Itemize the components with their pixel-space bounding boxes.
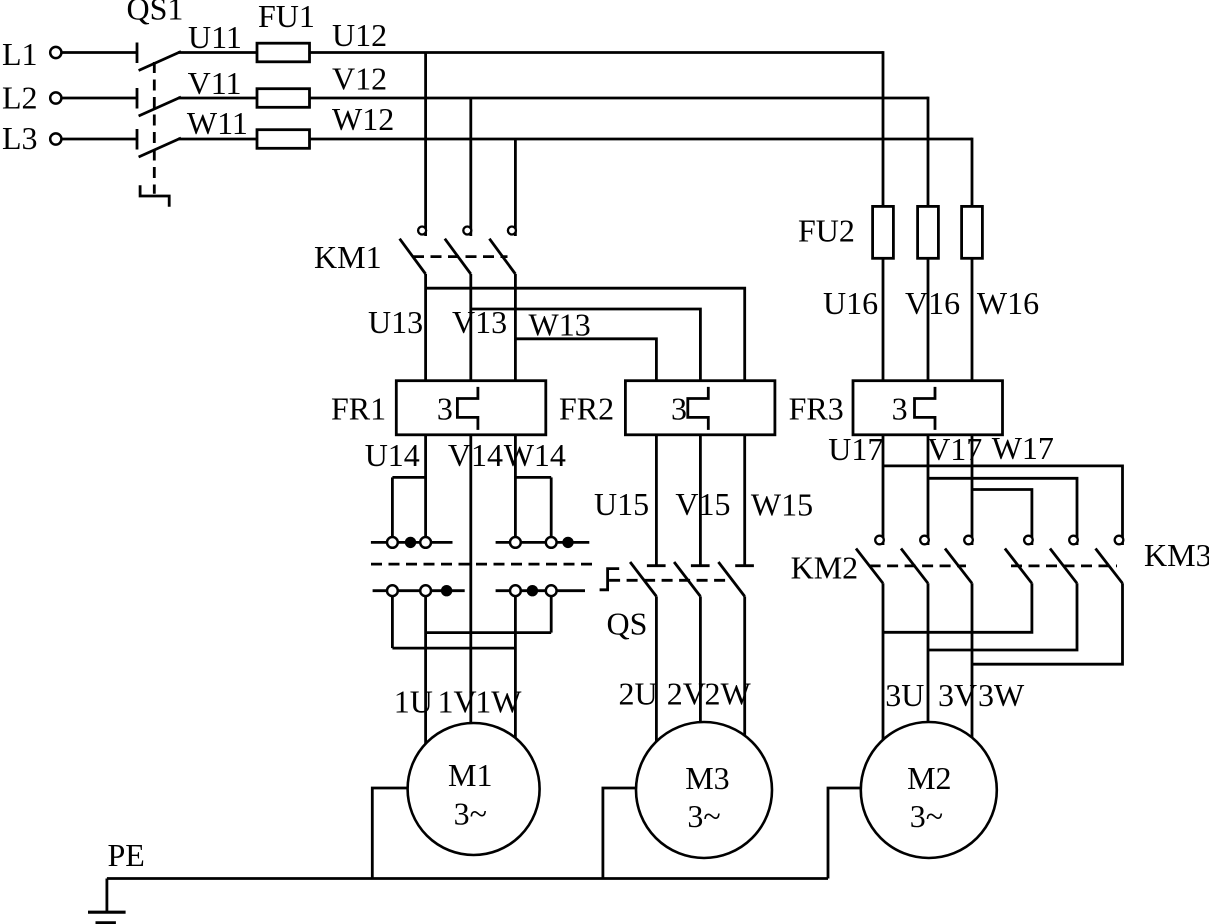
overload relay FR1 box — [396, 381, 546, 435]
fuse FU1 pole 1 — [257, 43, 310, 62]
svg-text:3: 3 — [437, 391, 453, 427]
KM2 pole 1 fixed contact circle — [875, 536, 884, 545]
wire W13 vertical — [514, 274, 517, 381]
KM3 pole 1 blade — [1005, 549, 1032, 584]
svg-text:U17: U17 — [828, 431, 883, 467]
wire M1 earth stub — [372, 788, 407, 879]
drum switch row1 contact E — [546, 537, 557, 548]
wire U12 drop to FU2 — [882, 51, 885, 206]
wire KM3 pole1 return — [883, 583, 1032, 632]
wire KM3 pole3 return — [972, 583, 1123, 664]
wire bus drop to KM1 pole 3 — [514, 139, 517, 236]
wire PE to ground — [106, 879, 109, 912]
KM1 blade pole 1 — [400, 239, 426, 274]
wire U11 — [178, 51, 257, 54]
svg-text:KM3: KM3 — [1144, 537, 1209, 573]
QS1 blade pole 1 — [139, 52, 181, 71]
FR3 heater element symbol — [915, 387, 936, 430]
svg-text:L2: L2 — [2, 80, 38, 116]
drum switch row2 bridge dot right — [527, 585, 538, 596]
fuse FU1 pole 3 — [257, 130, 310, 149]
QS1 linkage dashed line — [153, 62, 156, 194]
overload relay FR2 box — [625, 381, 775, 435]
wire U14 jog to left column — [392, 476, 425, 479]
motor M1 circle — [408, 723, 540, 855]
wire 1W motor lead — [514, 596, 517, 738]
QS1 operating handle — [140, 185, 169, 207]
wire V17 branch to KM3 — [928, 478, 1077, 545]
svg-text:U12: U12 — [332, 17, 387, 53]
wire U13 vertical — [424, 274, 427, 381]
drum switch row2 right contact line — [496, 589, 585, 592]
wire U15 vertical — [655, 435, 658, 566]
wire KM3 pole2 return — [928, 583, 1077, 650]
wire left column drop — [391, 477, 394, 537]
wire V13 vertical — [469, 274, 472, 381]
svg-text:U14: U14 — [365, 437, 420, 473]
wire L3 to QS1 — [61, 138, 137, 141]
QS fixed contact tick pole 2 — [691, 564, 710, 567]
wire row2 A drop — [391, 596, 394, 648]
wire W12 drop to FU2 — [971, 138, 974, 207]
wire 3U motor lead — [882, 583, 885, 740]
wire L2 to QS1 — [61, 97, 137, 100]
wire W14 vertical — [514, 435, 517, 537]
wire PE bus — [107, 877, 828, 880]
wire right column drop — [550, 477, 553, 537]
fuse FU2 pole 3 — [962, 206, 983, 258]
wire row2 E to B crossover — [426, 631, 552, 634]
wire U14 vertical — [424, 435, 427, 537]
wire V12 bus — [310, 97, 929, 100]
wire W15 vertical — [743, 435, 746, 566]
drum switch row1 contact B — [420, 537, 431, 548]
wire V12 drop to FU2 — [927, 97, 930, 207]
svg-text:2W: 2W — [705, 676, 752, 712]
wire bus drop to KM1 pole 1 — [424, 53, 427, 237]
wire W14 jog to right column — [515, 476, 551, 479]
svg-text:W15: W15 — [751, 487, 813, 523]
wire V14 vertical (through to motor M1) — [469, 435, 472, 723]
FR1 heater element symbol — [457, 387, 478, 430]
KM1 fixed contact circle pole 2 — [463, 227, 471, 235]
drum switch row2 contact B — [420, 585, 431, 596]
svg-text:3: 3 — [892, 391, 908, 427]
svg-text:FR1: FR1 — [331, 391, 386, 427]
wire V17 vertical — [927, 435, 930, 545]
svg-text:FU2: FU2 — [798, 213, 855, 249]
svg-text:L3: L3 — [2, 120, 38, 156]
QS1 blade pole 2 — [139, 97, 181, 116]
drum switch row1 bridge dot — [405, 537, 416, 548]
ground bar 1 — [88, 911, 126, 914]
drum switch row1 contact A — [387, 537, 398, 548]
overload relay FR3 box — [853, 381, 1003, 435]
FR2 heater element symbol — [688, 387, 709, 430]
svg-text:V16: V16 — [905, 285, 960, 321]
wire U12 bus — [310, 51, 884, 54]
fuse FU2 pole 2 — [918, 206, 939, 258]
svg-text:3~: 3~ — [454, 796, 487, 832]
svg-text:2V: 2V — [667, 676, 706, 712]
wire W11 — [178, 138, 257, 141]
KM3 pole 3 blade — [1096, 549, 1123, 584]
wire W17 vertical — [971, 435, 974, 545]
drum switch row1 bridge dot right — [562, 537, 573, 548]
svg-text:V14: V14 — [448, 437, 503, 473]
KM2 pole 3 fixed contact circle — [964, 536, 973, 545]
wire 2W motor lead — [743, 596, 746, 735]
svg-text:PE: PE — [108, 837, 145, 873]
drum switch row2 bridge dot — [441, 585, 452, 596]
svg-text:U13: U13 — [368, 304, 423, 340]
motor M3 circle — [636, 722, 772, 858]
KM2 linkage dashed line — [870, 565, 966, 568]
wire U17 vertical — [882, 435, 885, 545]
svg-text:V11: V11 — [188, 65, 242, 101]
KM2 pole 3 blade — [945, 549, 972, 584]
KM3 pole 2 blade — [1050, 549, 1077, 584]
svg-text:KM1: KM1 — [314, 239, 382, 275]
QS fixed contact tick pole 1 — [647, 564, 666, 567]
svg-text:3~: 3~ — [687, 798, 720, 834]
wire 2V motor lead — [699, 596, 702, 722]
svg-text:QS: QS — [607, 606, 648, 642]
svg-text:V12: V12 — [332, 61, 387, 97]
KM1 blade pole 2 — [445, 239, 471, 274]
wire M2 earth riser — [828, 788, 861, 879]
QS blade pole 2 — [674, 562, 700, 596]
QS blade pole 1 — [630, 562, 656, 596]
drum switch linkage dashed line — [371, 563, 598, 566]
svg-text:W17: W17 — [992, 430, 1054, 466]
drum switch row2 contact A — [387, 585, 398, 596]
svg-text:FR3: FR3 — [789, 391, 844, 427]
KM2 pole 1 blade — [856, 549, 883, 584]
QS blade pole 3 — [718, 562, 744, 596]
svg-text:KM2: KM2 — [791, 550, 859, 586]
QS1 fixed contact tick pole 2 — [136, 88, 139, 109]
ground bar 2 — [96, 921, 116, 924]
svg-text:W11: W11 — [187, 105, 248, 141]
KM3 pole 2 fixed contact circle — [1069, 536, 1078, 545]
KM2 pole 2 fixed contact circle — [920, 536, 929, 545]
svg-text:1W: 1W — [475, 684, 522, 720]
svg-text:1U: 1U — [394, 684, 433, 720]
drum switch row1 right contact line — [496, 541, 590, 544]
wire L1 to QS1 — [61, 51, 137, 54]
wire FU2 pole 2 to FR3 — [927, 258, 930, 380]
drum switch row2 contact E — [546, 585, 557, 596]
svg-text:M2: M2 — [907, 760, 951, 796]
svg-text:W16: W16 — [977, 285, 1039, 321]
svg-text:W12: W12 — [332, 101, 394, 137]
svg-text:M3: M3 — [685, 760, 729, 796]
terminal circle L3 — [50, 133, 61, 144]
QS1 blade pole 3 — [139, 138, 181, 157]
QS linkage dashed line — [609, 579, 733, 582]
KM3 pole 1 fixed contact circle — [1024, 536, 1033, 545]
svg-text:U11: U11 — [188, 19, 242, 55]
wire 2U motor lead — [655, 596, 658, 741]
svg-text:M1: M1 — [448, 757, 492, 793]
wire W13 branch to FR2 — [515, 339, 656, 381]
KM3 linkage dashed line — [1011, 565, 1117, 568]
svg-text:FU1: FU1 — [258, 0, 315, 34]
svg-text:V15: V15 — [675, 486, 730, 522]
wire V13 branch to FR2 — [471, 309, 701, 381]
svg-text:2U: 2U — [619, 676, 658, 712]
wire U17 branch to KM3 — [883, 466, 1123, 545]
drum switch row1 contact D — [510, 537, 521, 548]
svg-text:V17: V17 — [927, 431, 982, 467]
terminal circle L1 — [50, 47, 61, 58]
svg-text:L1: L1 — [2, 36, 38, 72]
QS1 fixed contact tick pole 1 — [136, 43, 139, 64]
svg-text:3: 3 — [671, 391, 687, 427]
wire V15 vertical — [699, 435, 702, 566]
motor M2 circle — [861, 722, 997, 858]
fuse FU1 pole 2 — [257, 89, 310, 108]
KM1 blade pole 3 — [489, 239, 515, 274]
svg-text:U16: U16 — [823, 285, 878, 321]
svg-text:W13: W13 — [529, 307, 591, 343]
svg-text:3W: 3W — [978, 677, 1025, 713]
wire row2 E drop — [550, 596, 553, 633]
svg-text:3~: 3~ — [910, 798, 943, 834]
svg-text:QS1: QS1 — [127, 0, 184, 27]
wire 3V motor lead — [927, 583, 930, 722]
wire FU2 pole 1 to FR3 — [882, 258, 885, 380]
wire U13 branch to FR2 — [426, 288, 745, 381]
wire W17 branch to KM3 — [972, 490, 1032, 546]
wire W12 bus — [310, 138, 973, 141]
QS1 fixed contact tick pole 3 — [136, 129, 139, 150]
wire 1U motor lead — [424, 596, 427, 744]
wire V11 — [178, 97, 257, 100]
drum switch row2 left contact line — [373, 589, 465, 592]
KM1 linkage dashed line — [413, 255, 508, 258]
svg-text:3V: 3V — [938, 677, 977, 713]
svg-text:W14: W14 — [504, 437, 566, 473]
KM1 fixed contact circle pole 1 — [418, 227, 426, 235]
KM2 pole 2 blade — [901, 549, 928, 584]
wire 3W motor lead — [971, 583, 974, 737]
svg-text:3U: 3U — [885, 677, 924, 713]
wire FU2 pole 3 to FR3 — [971, 258, 974, 380]
wire bus drop to KM1 pole 2 — [469, 98, 472, 236]
terminal circle L2 — [50, 92, 61, 103]
svg-text:U15: U15 — [594, 486, 649, 522]
KM3 pole 3 fixed contact circle — [1115, 536, 1124, 545]
drum switch row2 contact D — [510, 585, 521, 596]
QS fixed contact tick pole 3 — [735, 564, 754, 567]
svg-text:FR2: FR2 — [559, 391, 614, 427]
drum switch row1 left contact line — [371, 541, 453, 544]
QS operating handle — [600, 569, 620, 590]
fuse FU2 pole 1 — [873, 206, 894, 258]
wire row2 A to D crossover — [392, 647, 515, 650]
svg-text:1V: 1V — [438, 684, 477, 720]
KM1 fixed contact circle pole 3 — [508, 227, 516, 235]
wire M3 earth stub — [603, 788, 636, 879]
